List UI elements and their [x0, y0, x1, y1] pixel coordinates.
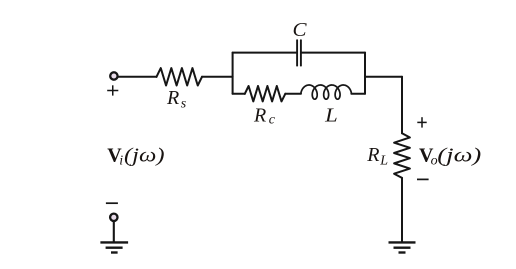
- svg-text:C: C: [293, 19, 308, 41]
- ground left: [100, 242, 128, 252]
- plus sign at input: [107, 85, 118, 95]
- wire box left vertical: [232, 53, 234, 94]
- wire RL to ground: [401, 178, 403, 242]
- ground right: [389, 242, 416, 252]
- wire bottom edge left: [233, 93, 245, 95]
- wire bottom terminal stem: [113, 222, 115, 243]
- resistor RL: [394, 133, 410, 178]
- svg-text:c: c: [269, 112, 276, 127]
- svg-text:R: R: [166, 87, 179, 109]
- minus sign at output: [417, 178, 429, 180]
- wire output top: [365, 76, 402, 78]
- minus sign at bottom terminal: [106, 202, 118, 204]
- wire top edge right of capacitor: [302, 52, 365, 54]
- svg-text:(jω): (jω): [437, 145, 481, 167]
- svg-text:L: L: [324, 105, 338, 127]
- svg-text:L: L: [379, 153, 388, 168]
- svg-text:(jω): (jω): [124, 144, 165, 166]
- wire top edge left of capacitor: [233, 52, 297, 54]
- plus sign at output: [417, 117, 426, 127]
- capacitor C: [297, 40, 301, 65]
- resistor Rs: [157, 68, 203, 85]
- inductor L: [301, 85, 351, 99]
- wire input to Rs: [119, 76, 157, 78]
- svg-text:s: s: [181, 96, 187, 111]
- wire down to RL: [401, 77, 403, 134]
- wire L to box right: [351, 93, 365, 95]
- resistor Rc: [245, 86, 285, 101]
- svg-text:R: R: [253, 105, 266, 127]
- wire Rc to L: [285, 93, 301, 95]
- svg-text:i: i: [119, 153, 123, 168]
- wire Rs to box left: [202, 76, 233, 78]
- svg-text:R: R: [366, 144, 379, 166]
- input terminal node: [110, 72, 117, 79]
- input terminal negative node: [110, 214, 117, 221]
- wire box right vertical: [364, 53, 366, 94]
